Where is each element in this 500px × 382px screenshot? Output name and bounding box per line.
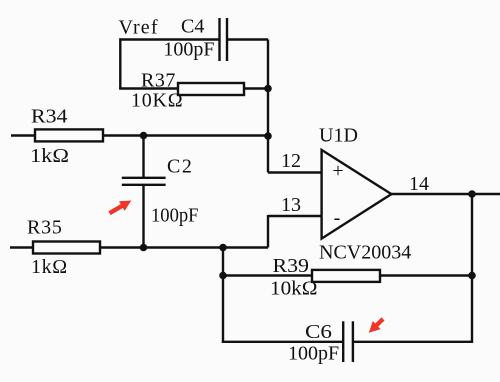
svg-text:12: 12 xyxy=(281,150,301,172)
svg-text:100pF: 100pF xyxy=(288,343,339,365)
svg-text:R34: R34 xyxy=(31,106,68,128)
svg-text:10KΩ: 10KΩ xyxy=(131,90,183,112)
svg-text:C6: C6 xyxy=(305,321,332,343)
svg-text:10kΩ: 10kΩ xyxy=(270,278,318,300)
svg-text:1kΩ: 1kΩ xyxy=(31,256,68,278)
svg-text:100pF: 100pF xyxy=(151,205,199,227)
svg-text:C2: C2 xyxy=(167,156,193,178)
svg-text:1kΩ: 1kΩ xyxy=(30,145,69,167)
svg-text:100pF: 100pF xyxy=(163,38,214,60)
svg-text:14: 14 xyxy=(409,173,429,195)
svg-text:R37: R37 xyxy=(141,70,176,92)
svg-text:U1D: U1D xyxy=(319,125,358,147)
svg-text:C4: C4 xyxy=(181,16,204,38)
svg-text:NCV20034: NCV20034 xyxy=(319,242,411,264)
svg-text:13: 13 xyxy=(281,194,301,216)
svg-text:-: - xyxy=(334,207,341,229)
svg-text:R35: R35 xyxy=(27,217,63,239)
svg-text:+: + xyxy=(332,160,343,182)
svg-text:R39: R39 xyxy=(273,255,310,277)
svg-text:Vref: Vref xyxy=(119,17,159,39)
